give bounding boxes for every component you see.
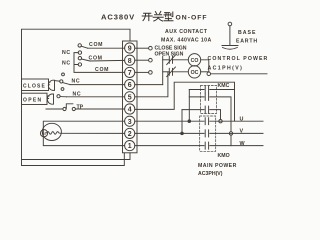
wire terminal 9 aux stub	[135, 47, 149, 49]
svg-text:CLOSE: CLOSE	[23, 84, 46, 90]
wire: bottom wrap from terminal strip to box corner	[22, 153, 125, 166]
KMO dashed box	[200, 116, 216, 151]
wire OC lamp branch	[163, 71, 170, 73]
wire KMC row2	[189, 93, 231, 131]
wire terminal 5 riser to OC branch	[135, 72, 168, 97]
svg-text:ON-OFF: ON-OFF	[176, 14, 208, 21]
OPEN switch pole	[57, 95, 60, 98]
KMO contact on U row	[205, 118, 208, 125]
svg-text:AC1PH(V): AC1PH(V)	[208, 66, 244, 72]
switch S2 arm	[81, 59, 90, 61]
switch S2 pole (to terminal 8)	[78, 57, 81, 60]
wire OC to node	[201, 71, 209, 73]
svg-text:7: 7	[128, 70, 132, 77]
wire U row	[135, 120, 263, 122]
wire S2 to terminal 8	[90, 59, 125, 62]
terminal 5	[125, 92, 135, 102]
wire TP to terminal 4	[75, 108, 124, 110]
svg-text:NC: NC	[62, 61, 71, 67]
KMO contact on W row	[205, 142, 208, 149]
motor winding wire to terminal 2	[47, 132, 125, 135]
svg-text:OC: OC	[191, 70, 199, 76]
TP thermal contact	[66, 104, 73, 109]
wire KMC row3	[182, 106, 221, 119]
wire KMC row1-row2 riser to U row	[188, 90, 190, 122]
wire cap to CO lamp	[173, 59, 189, 61]
svg-text:COM: COM	[89, 55, 103, 61]
title glyph 型	[164, 12, 173, 21]
OPEN cam	[47, 94, 53, 104]
indicator lamp CO	[188, 54, 200, 66]
svg-text:U: U	[240, 116, 244, 122]
svg-text:AUX CONTACT: AUX CONTACT	[165, 29, 208, 35]
lamp bus	[162, 57, 164, 85]
TP contact left node	[63, 107, 66, 110]
terminal 2	[125, 128, 135, 138]
motor body	[42, 123, 61, 140]
svg-text:NC: NC	[72, 78, 81, 84]
svg-text:COM: COM	[89, 42, 103, 48]
OPEN switch arm	[60, 96, 67, 98]
capacitor contact (CO)	[167, 55, 176, 65]
junction dot V row	[181, 132, 184, 135]
terminal 7	[125, 67, 135, 77]
OPEN NO contact	[61, 88, 64, 91]
wire OPEN to terminal 5	[67, 96, 125, 98]
KMO contact on V row	[205, 130, 208, 137]
terminal 9	[125, 43, 135, 53]
svg-text:1: 1	[128, 143, 132, 150]
title glyph 关	[153, 11, 163, 21]
wire TP row	[46, 108, 63, 110]
svg-text:8: 8	[128, 58, 132, 65]
svg-text:3: 3	[128, 119, 132, 126]
svg-text:EARTH: EARTH	[236, 39, 258, 45]
capacitor contact (OC)	[167, 67, 176, 77]
CLOSE NO contact	[62, 73, 65, 76]
svg-text:AC380V: AC380V	[101, 13, 135, 22]
wire terminal 6 to lamp bus	[135, 84, 163, 86]
wire control power	[211, 73, 267, 75]
svg-text:KMO: KMO	[218, 153, 230, 159]
wire terminal 8 aux stub	[135, 59, 149, 61]
aux contact socket (terminal 7)	[149, 71, 153, 75]
switch S2 NC contact	[78, 63, 81, 66]
OPEN cam switch block	[22, 93, 48, 104]
wire KMC row1	[189, 86, 234, 93]
motor small circle M	[40, 130, 47, 137]
svg-text:6: 6	[128, 82, 132, 89]
svg-text:4: 4	[128, 107, 132, 114]
wire S1 to terminal 9	[88, 47, 125, 49]
svg-text:M: M	[42, 131, 46, 136]
junction dot U row	[188, 120, 191, 123]
title glyph 开	[142, 13, 152, 20]
svg-text:CONTROL POWER: CONTROL POWER	[208, 56, 269, 62]
KMC dashed box	[201, 86, 217, 114]
svg-text:CLOSE SIGN: CLOSE SIGN	[155, 45, 187, 51]
svg-text:CO: CO	[191, 58, 199, 64]
terminal 1	[125, 141, 135, 151]
switch S1 NC contact	[78, 51, 81, 54]
svg-text:KMC: KMC	[218, 83, 230, 89]
terminal 4	[125, 104, 135, 114]
node on U row	[219, 120, 222, 123]
TP contact right node	[72, 107, 75, 110]
wire W row	[135, 145, 263, 147]
svg-text:NC: NC	[73, 91, 82, 97]
terminal 6	[125, 80, 135, 90]
svg-text:V: V	[240, 129, 244, 135]
svg-text:9: 9	[128, 46, 132, 53]
svg-text:5: 5	[128, 94, 132, 101]
CLOSE cam	[48, 80, 54, 90]
switch S1 arm	[81, 46, 87, 48]
wire terminal 4 rail over KMC	[135, 82, 235, 121]
wire KMC row3 riser to V row	[181, 110, 183, 133]
wire terminal 7 aux stub	[135, 71, 149, 73]
wire V row	[135, 132, 263, 134]
svg-text:TP: TP	[77, 105, 84, 111]
svg-text:MAX. 440VAC 10A: MAX. 440VAC 10A	[161, 38, 212, 44]
CLOSE switch lever	[55, 80, 60, 83]
switch S1 pole (to terminal 9)	[78, 44, 81, 47]
wire CLOSE to terminal 6	[70, 84, 125, 86]
CLOSE cam switch block	[22, 79, 49, 91]
terminal 3	[125, 116, 135, 126]
wire common bracket to terminal 7	[74, 53, 125, 73]
svg-text:OPEN: OPEN	[23, 98, 42, 104]
CLOSE switch pole	[60, 80, 63, 83]
earth electrode symbol	[228, 22, 232, 26]
CLOSE switch arm	[63, 83, 70, 85]
indicator lamp OC	[188, 66, 200, 78]
motor M	[43, 121, 124, 145]
node control power	[207, 72, 211, 76]
aux contact socket (terminal 8)	[149, 58, 153, 62]
svg-text:COM: COM	[95, 67, 109, 73]
wire lamp right bus	[201, 60, 209, 72]
actuator enclosure box	[22, 29, 131, 159]
svg-text:NC: NC	[62, 50, 71, 56]
wire node V to W row	[230, 135, 232, 145]
svg-text:2: 2	[128, 131, 132, 138]
wire cap to OC lamp	[173, 71, 189, 73]
svg-text:AC3PH(V): AC3PH(V)	[198, 171, 223, 177]
aux contact socket (terminal 9)	[149, 46, 153, 50]
terminal strip	[123, 41, 138, 153]
svg-text:MAIN POWER: MAIN POWER	[198, 163, 237, 169]
node on V row	[229, 132, 232, 135]
wire CO lamp branch	[163, 59, 170, 61]
svg-text:BASE: BASE	[238, 30, 256, 36]
terminal 8	[125, 55, 135, 65]
